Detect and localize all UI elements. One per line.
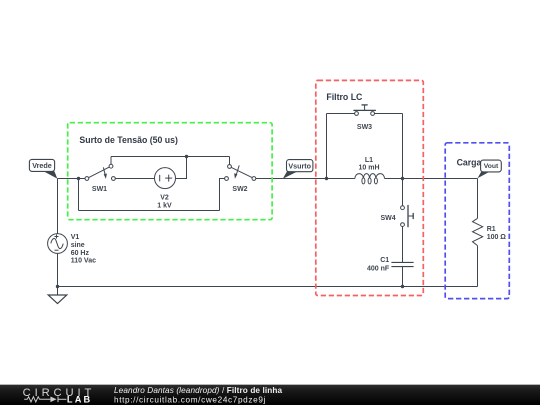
logo diode arrow xyxy=(50,397,56,403)
wire SW2 common to Vsurto xyxy=(256,178,327,180)
svg-text:sine: sine xyxy=(71,242,85,249)
svg-text:SW1: SW1 xyxy=(92,186,107,193)
wire SW4 to C1 xyxy=(402,227,404,263)
wire Vsurto to L1 xyxy=(327,178,355,180)
svg-text:Vout: Vout xyxy=(484,163,499,170)
svg-text:Vsurto: Vsurto xyxy=(288,161,311,170)
wire top rail xyxy=(111,156,230,158)
junction V2 top rail xyxy=(185,155,188,158)
wire R1 to bottom rail xyxy=(477,246,479,287)
junction L1 output / SW4 branch xyxy=(401,177,404,180)
wire SW3 to right vertical xyxy=(374,113,402,115)
node flag Vrede xyxy=(44,171,58,178)
logo waveform xyxy=(24,397,66,403)
svg-text:110 Vac: 110 Vac xyxy=(71,258,96,265)
ground xyxy=(48,295,67,304)
filter box (red dashed) xyxy=(316,80,424,295)
wire V2 right to top rail xyxy=(176,157,187,179)
footer bar xyxy=(0,385,540,405)
capacitor C1 xyxy=(391,262,413,266)
junction ground tap xyxy=(56,285,59,288)
pushbutton SW4 xyxy=(401,205,414,227)
wire bypass down xyxy=(78,179,80,211)
svg-text:Vrede: Vrede xyxy=(32,161,52,170)
wire Vout down to R1 xyxy=(477,179,479,219)
voltage source V1 xyxy=(48,234,68,254)
svg-text:SW4: SW4 xyxy=(381,215,396,222)
wire SW1 upper throw to top rail xyxy=(110,157,112,165)
wire bottom rail xyxy=(58,286,478,288)
wire filter top left to SW3 xyxy=(327,113,355,115)
resistor R1 xyxy=(473,218,483,245)
svg-text:R1: R1 xyxy=(487,226,496,233)
svg-text:100 Ω: 100 Ω xyxy=(487,234,507,241)
wire bypass bottom xyxy=(79,210,220,212)
wire bypass up to SW2 xyxy=(220,179,225,211)
wire V1 bottom xyxy=(57,253,59,295)
pushbutton SW3 xyxy=(353,105,376,116)
voltage source V2 xyxy=(155,168,176,189)
svg-text:1 kV: 1 kV xyxy=(157,202,172,209)
svg-text:Surto de Tensão (50 us): Surto de Tensão (50 us) xyxy=(79,135,178,145)
inductor L1 xyxy=(355,174,385,184)
surge box (green dashed) xyxy=(68,123,272,220)
junction node Vsurto filter input xyxy=(325,177,328,180)
wire L1 to junction xyxy=(385,178,403,180)
wire Vrede to SW1 xyxy=(58,178,86,180)
node flag Vsurto xyxy=(283,172,298,179)
svg-text:Leandro Dantas (leandropd) / F: Leandro Dantas (leandropd) / Filtro de l… xyxy=(114,386,283,395)
svg-text:C1: C1 xyxy=(380,257,389,264)
junction C1 bottom rail xyxy=(401,285,404,288)
svg-text:60 Hz: 60 Hz xyxy=(71,250,90,257)
svg-text:SW3: SW3 xyxy=(357,124,372,131)
svg-text:10 mH: 10 mH xyxy=(358,164,379,171)
svg-text:V2: V2 xyxy=(160,195,169,202)
wire top rail down to SW2 upper throw xyxy=(229,157,231,165)
load box (blue dashed) xyxy=(445,143,509,299)
wire C1 to bottom rail xyxy=(402,267,404,287)
svg-text:LAB: LAB xyxy=(67,394,92,404)
switch SW2 xyxy=(225,165,256,181)
svg-text:Filtro LC: Filtro LC xyxy=(326,92,363,102)
switch SW1 xyxy=(85,164,115,180)
svg-text:Carga: Carga xyxy=(457,157,482,167)
svg-text:400 nF: 400 nF xyxy=(367,265,390,272)
svg-text:L1: L1 xyxy=(365,157,373,164)
wire filter right vertical xyxy=(402,114,404,179)
wire SW1 throw to V2 xyxy=(115,178,154,180)
wire V1 top xyxy=(57,179,59,234)
junction Vrede bypass tap xyxy=(77,177,80,180)
node flag Vout xyxy=(478,172,490,179)
svg-text:V1: V1 xyxy=(71,234,80,241)
svg-text:SW2: SW2 xyxy=(232,186,247,193)
wire filter left vertical xyxy=(326,114,328,179)
svg-text:http://circuitlab.com/cwe24c7p: http://circuitlab.com/cwe24c7pdze9j xyxy=(114,395,266,404)
wire junction to Vout xyxy=(403,178,478,180)
wire junction down to SW4 xyxy=(402,179,404,206)
